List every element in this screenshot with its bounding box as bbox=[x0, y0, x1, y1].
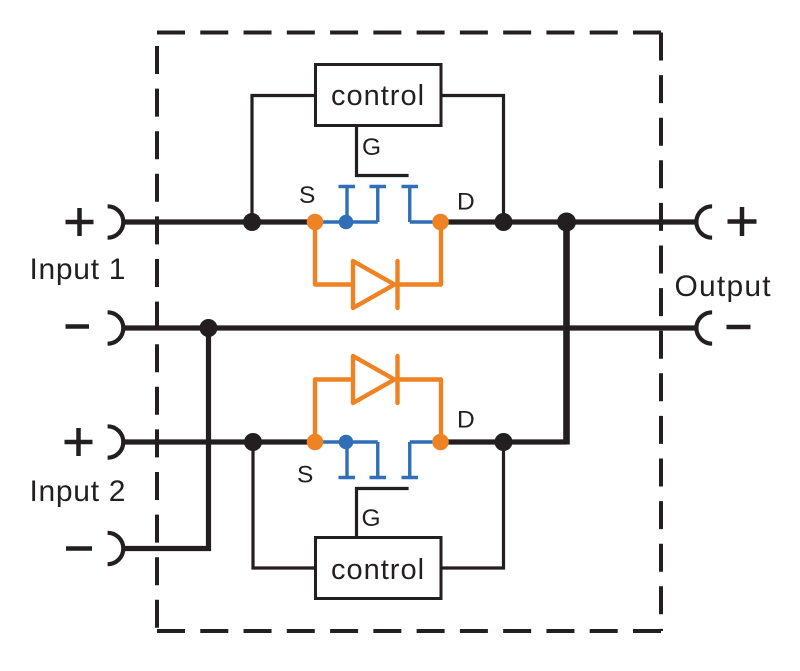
node: Q1 drain dot bbox=[432, 214, 449, 231]
node: Q1 source dot bbox=[307, 214, 324, 231]
control box U2 (bottom) bbox=[316, 538, 442, 599]
wire: minus rail input1 to output bbox=[124, 325, 696, 330]
svg-text:G: G bbox=[362, 134, 381, 161]
svg-text:Output: Output bbox=[675, 270, 772, 303]
junction: bottom control right tap bbox=[495, 433, 513, 451]
wire: top drain to output plus bbox=[438, 219, 696, 224]
wire: top control left connection bbox=[252, 96, 314, 223]
svg-text:Input 1: Input 1 bbox=[30, 253, 127, 286]
svg-text:G: G bbox=[362, 505, 381, 532]
label: input1 plus sign bbox=[66, 208, 94, 236]
label: output plus sign bbox=[728, 207, 757, 236]
wire: bottom drain to OR bus bbox=[438, 439, 567, 444]
terminal: output plus arc bbox=[696, 206, 712, 237]
svg-text:S: S bbox=[299, 182, 315, 209]
label: output minus sign bbox=[727, 325, 751, 330]
junction: bottom control left tap bbox=[244, 433, 262, 451]
junction: minus rail tap bbox=[200, 319, 218, 337]
wire: bottom gate G bbox=[357, 489, 409, 538]
svg-text:control: control bbox=[331, 554, 425, 586]
dashed enclosure border bbox=[157, 33, 661, 632]
junction: top control right tap bbox=[495, 213, 513, 231]
svg-text:control: control bbox=[331, 80, 425, 112]
wire: top gate G bbox=[357, 127, 409, 176]
wire: OR output bus vertical bbox=[563, 219, 570, 445]
node: Q2 source dot bbox=[307, 434, 324, 451]
node: Q2 drain dot bbox=[432, 434, 449, 451]
label: input1 minus sign bbox=[66, 324, 90, 329]
node: Q1 body dot bbox=[339, 215, 354, 230]
svg-text:D: D bbox=[457, 189, 475, 216]
body diode D1 (top, orange) bbox=[315, 222, 441, 308]
wire: bottom control right connection bbox=[442, 442, 504, 568]
junction: top control left tap bbox=[243, 213, 261, 231]
wire: top control right connection bbox=[442, 96, 504, 223]
svg-text:S: S bbox=[297, 462, 313, 489]
label: input2 plus sign bbox=[65, 428, 93, 456]
svg-text:Input 2: Input 2 bbox=[30, 475, 127, 508]
node: Q2 body dot bbox=[339, 435, 354, 450]
terminal: input1 minus arc bbox=[108, 312, 124, 343]
terminal: input2 minus arc bbox=[108, 533, 124, 564]
wire: bottom control left connection bbox=[253, 442, 314, 568]
svg-text:D: D bbox=[457, 407, 475, 434]
wire: input 2 plus rail bbox=[124, 439, 317, 444]
junction: OR bus tap bbox=[557, 213, 576, 232]
label: input2 minus sign bbox=[66, 546, 92, 551]
MOSFET Q1 channel (top, blue) bbox=[315, 187, 440, 223]
wire: input 2 minus link bbox=[124, 328, 209, 549]
terminal: input1 plus arc bbox=[108, 206, 124, 237]
terminal: output minus arc bbox=[696, 312, 712, 343]
MOSFET Q2 channel (bottom, blue) bbox=[315, 442, 440, 478]
terminal: input2 plus arc bbox=[108, 426, 124, 457]
control box U1 (top) bbox=[316, 65, 442, 126]
wire: input 1 plus rail bbox=[124, 219, 317, 224]
body diode D2 (bottom, orange) bbox=[315, 356, 441, 442]
